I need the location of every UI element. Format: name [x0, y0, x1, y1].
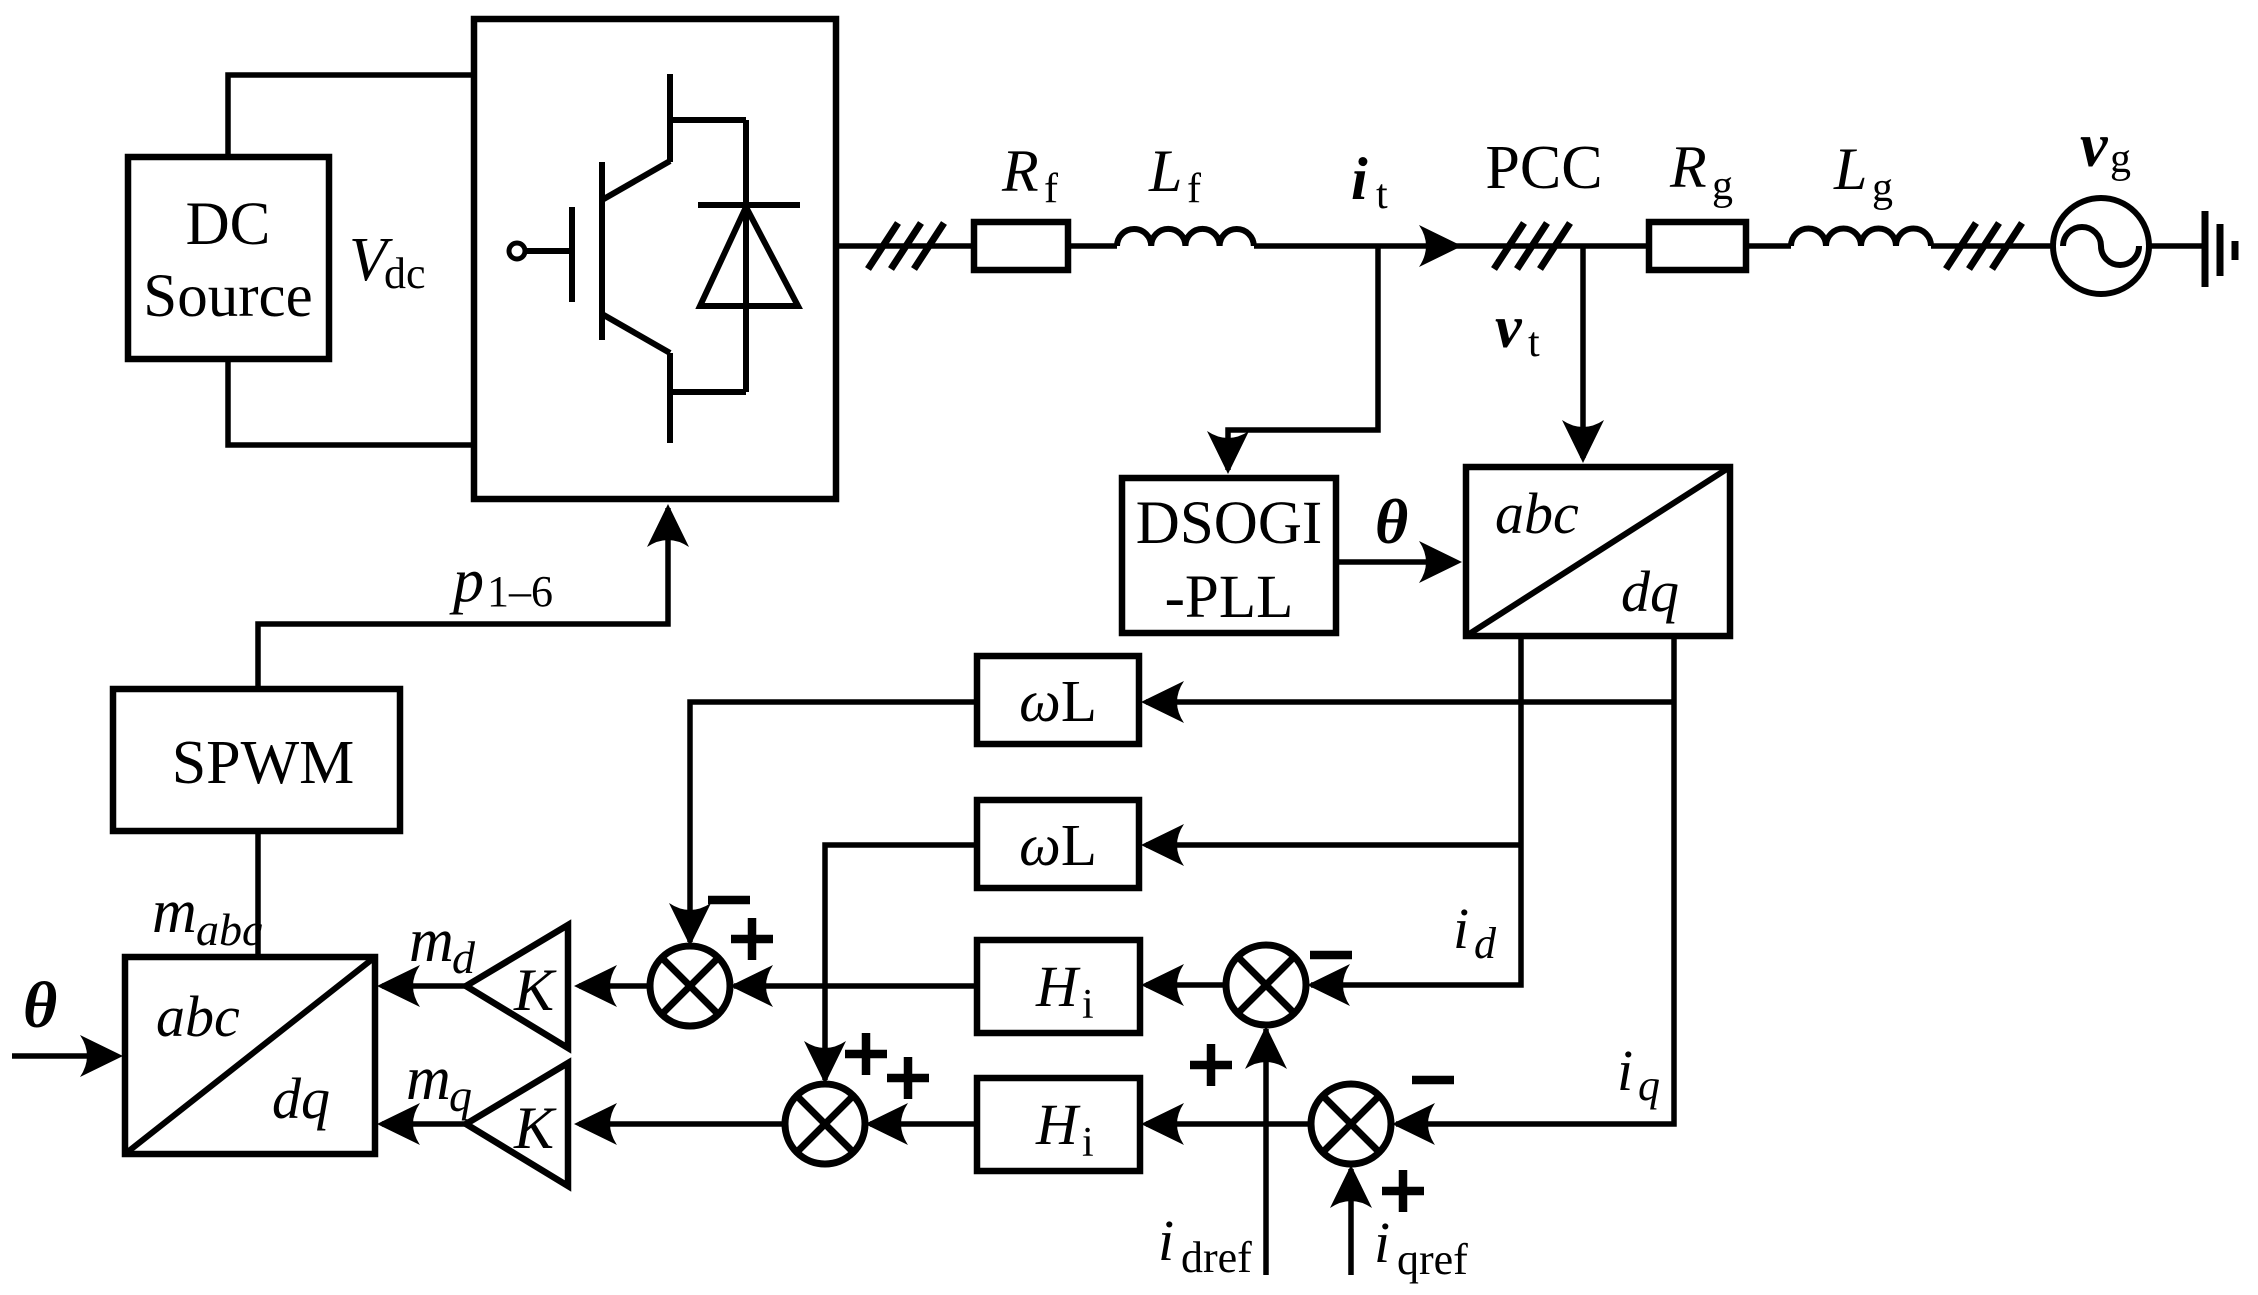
- resistor Rf: [974, 222, 1068, 270]
- inductor Lg: [1791, 229, 1931, 247]
- wire: source to ground: [2149, 243, 2202, 249]
- block Hi 1: [977, 940, 1140, 1033]
- inverter box U1: [474, 19, 836, 499]
- arrow into sum S2 right: [865, 1103, 908, 1145]
- svg-text:i: i: [1158, 1208, 1174, 1273]
- ac source vg: [2053, 198, 2149, 294]
- label Lg: [1833, 136, 1893, 211]
- svg-text:DSOGI: DSOGI: [1136, 490, 1322, 557]
- sign plus at S4 bottom input: [1382, 1170, 1424, 1212]
- svg-text:m: m: [152, 878, 197, 946]
- svg-text:L: L: [1148, 138, 1182, 204]
- label md: [409, 907, 476, 983]
- svg-text:ωL: ωL: [1019, 812, 1097, 878]
- svg-text:θ: θ: [23, 969, 57, 1042]
- ground: [2205, 211, 2235, 287]
- wire: DC source loop bottom: [228, 359, 474, 445]
- arrow into K gain d: [574, 965, 617, 1007]
- svg-text:i: i: [1082, 1120, 1094, 1166]
- arrow theta into abc/dq: [1419, 541, 1462, 583]
- svg-text:m: m: [409, 907, 454, 975]
- block Hi 2: [977, 1078, 1140, 1171]
- arrow theta into modulator: [80, 1035, 123, 1077]
- wire: vt branch to abc/dq: [1580, 246, 1586, 458]
- svg-text:K: K: [513, 957, 557, 1023]
- transistor Q1 (IGBT): [509, 74, 670, 443]
- wire: S2 to K gain q: [579, 1121, 785, 1127]
- svg-text:g: g: [2110, 136, 2131, 182]
- svg-text:H: H: [1035, 954, 1081, 1019]
- wire: ac bus from inverter to Rf: [836, 243, 974, 249]
- svg-text:abc: abc: [156, 984, 240, 1049]
- svg-text:i: i: [1082, 982, 1094, 1028]
- svg-text:-PLL: -PLL: [1165, 564, 1294, 631]
- label idref: [1158, 1208, 1252, 1282]
- wire: theta from DSOGI-PLL to abc/dq: [1336, 559, 1452, 565]
- diode D1 (antiparallel): [670, 120, 800, 392]
- svg-text:i: i: [1453, 896, 1469, 961]
- svg-text:PCC: PCC: [1485, 134, 1602, 202]
- svg-text:v: v: [2080, 112, 2109, 180]
- svg-text:dc: dc: [384, 249, 426, 298]
- label Rg: [1669, 134, 1733, 209]
- svg-text:Source: Source: [143, 263, 312, 330]
- arrow into DSOGI-PLL: [1207, 431, 1249, 474]
- wire: mq to abc/dq modulator: [382, 1121, 466, 1127]
- svg-text:R: R: [1669, 134, 1707, 200]
- wire: Rf to Lf: [1068, 243, 1117, 249]
- arrow md into modulator box: [377, 965, 420, 1007]
- resistor Rg: [1649, 222, 1746, 270]
- gain K (d-axis): [466, 925, 568, 1048]
- svg-text:dq: dq: [272, 1066, 330, 1131]
- svg-text:SPWM: SPWM: [172, 729, 355, 797]
- wire: mabc from modulator to SPWM: [255, 831, 261, 957]
- svg-text:dq: dq: [1621, 559, 1679, 624]
- svg-text:H: H: [1035, 1092, 1081, 1157]
- label mq: [406, 1045, 472, 1121]
- wire: DC source loop top: [228, 75, 474, 157]
- wire: Rg to Lg: [1746, 243, 1791, 249]
- arrow into Hi 2: [1141, 1103, 1184, 1145]
- label p1-6: [449, 547, 553, 616]
- arrow p1-6 into inverter: [647, 504, 689, 547]
- svg-text:v: v: [1495, 294, 1523, 360]
- wire: S1 to K gain d: [579, 983, 650, 989]
- wire: gate pulses p1-6 from SPWM to inverter: [258, 508, 668, 689]
- svg-text:p: p: [449, 547, 484, 615]
- svg-text:g: g: [1712, 163, 1733, 209]
- wire: id output: [1311, 636, 1521, 985]
- svg-text:g: g: [1872, 165, 1893, 211]
- sign minus at S1 top input: [708, 896, 750, 905]
- svg-text:f: f: [1187, 166, 1201, 212]
- svg-text:L: L: [1833, 136, 1867, 202]
- arrow: current direction it: [1419, 225, 1462, 267]
- arrow iq into sum S4: [1392, 1103, 1435, 1145]
- svg-text:t: t: [1528, 320, 1540, 366]
- sum junction S4 (iq error): [1311, 1084, 1391, 1164]
- sign minus at S4: [1412, 1076, 1454, 1085]
- wire: Hi 2 output to sum S2: [870, 1121, 977, 1127]
- label Lf: [1148, 138, 1201, 212]
- wire: it sense branch to DSOGI-PLL: [1228, 246, 1378, 470]
- arrow into sum S1 right: [730, 965, 773, 1007]
- svg-text:m: m: [406, 1045, 451, 1113]
- svg-text:q: q: [1638, 1061, 1660, 1110]
- svg-text:qref: qref: [1397, 1235, 1468, 1284]
- label iq: [1617, 1038, 1660, 1110]
- svg-text:dref: dref: [1181, 1233, 1252, 1282]
- three-phase slashes (grid): [1946, 223, 2022, 269]
- svg-text:DC: DC: [186, 191, 271, 258]
- wire: Lf to Rg (through it arrow and PCC): [1254, 243, 1649, 249]
- gain K (q-axis): [466, 1063, 568, 1186]
- svg-text:i: i: [1617, 1038, 1633, 1103]
- label Vdc: [349, 226, 426, 298]
- wire: omega-L 2 output to sum S2: [825, 845, 977, 1080]
- wire: Lg to grid source: [1931, 243, 2053, 249]
- arrow into abc/dq: [1562, 420, 1604, 463]
- svg-text:abc: abc: [196, 904, 262, 955]
- inductor Lf: [1117, 229, 1254, 246]
- label id: [1453, 896, 1497, 968]
- sum junction S2 (q-axis): [785, 1084, 865, 1164]
- svg-text:d: d: [452, 932, 476, 983]
- wire: S4 to Hi 2: [1146, 1121, 1311, 1127]
- label vg: [2080, 112, 2131, 182]
- sign plus at S2 right input: [887, 1057, 929, 1099]
- sign minus at S3: [1310, 951, 1352, 960]
- svg-text:f: f: [1044, 166, 1058, 212]
- wire: Hi 1 output to sum S1: [734, 983, 977, 989]
- arrow into omega-L 2: [1141, 824, 1184, 866]
- wire: omega-L 1 output to sum S1: [690, 702, 977, 942]
- svg-text:θ: θ: [1375, 486, 1408, 557]
- svg-text:K: K: [513, 1095, 557, 1161]
- wire: theta input to modulator: [12, 1053, 112, 1059]
- svg-text:abc: abc: [1495, 481, 1579, 546]
- svg-text:d: d: [1474, 919, 1497, 968]
- sum junction S3 (id error): [1226, 945, 1306, 1025]
- block omega-L 2: [977, 800, 1139, 888]
- sign plus at S2 top input: [845, 1033, 887, 1075]
- arrow into sum S2 top: [804, 1041, 846, 1084]
- wire: iqref input: [1348, 1169, 1354, 1275]
- wire: iq tap to omega-L 1: [1146, 699, 1674, 705]
- arrow mq into modulator box: [377, 1103, 420, 1145]
- wire: md to abc/dq modulator: [382, 983, 466, 989]
- svg-text:q: q: [449, 1070, 472, 1121]
- svg-text:ωL: ωL: [1019, 668, 1097, 734]
- SPWM box: [113, 689, 400, 831]
- arrow idref into S3 bottom: [1245, 1026, 1287, 1069]
- svg-text:i: i: [1374, 1210, 1390, 1275]
- wire: idref input: [1263, 1029, 1269, 1275]
- abc/dq block (PLL measurement): [1466, 467, 1730, 636]
- sign plus at S1 right input: [731, 918, 773, 960]
- svg-text:1–6: 1–6: [487, 567, 553, 616]
- arrow into Hi 1: [1141, 964, 1184, 1006]
- block omega-L 1: [977, 656, 1139, 744]
- svg-text:R: R: [1001, 138, 1039, 204]
- three-phase slashes (PCC): [1494, 223, 1570, 269]
- arrow iqref into S4 bottom: [1330, 1165, 1372, 1208]
- arrow id into sum S3: [1307, 964, 1350, 1006]
- sign plus at S3 bottom input: [1190, 1044, 1232, 1086]
- DC Source box: [128, 157, 329, 359]
- arrow into omega-L 1: [1141, 681, 1184, 723]
- label iqref: [1374, 1210, 1468, 1284]
- label vt: [1495, 294, 1540, 366]
- wire: S3 to Hi 1: [1146, 982, 1226, 988]
- abc/dq modulator block: [125, 957, 375, 1154]
- three-phase slashes (inverter output): [868, 223, 944, 269]
- wire: id tap to omega-L 2: [1146, 842, 1521, 848]
- sum junction S1 (d-axis): [650, 946, 730, 1026]
- arrow into K gain q: [574, 1103, 617, 1145]
- svg-text:t: t: [1376, 172, 1388, 218]
- wire: iq output: [1396, 636, 1674, 1124]
- label Rf: [1001, 138, 1058, 212]
- svg-text:i: i: [1351, 146, 1368, 212]
- DSOGI-PLL box: [1122, 478, 1336, 633]
- label it: [1351, 146, 1388, 218]
- label mabc: [152, 878, 262, 955]
- arrow into sum S1 top: [669, 903, 711, 946]
